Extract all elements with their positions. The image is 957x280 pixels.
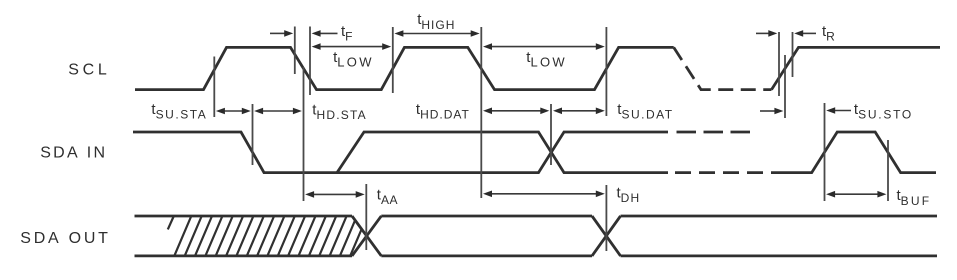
arrow tDH span xyxy=(491,193,597,195)
svg-text:tHD.DAT: tHD.DAT xyxy=(416,101,470,122)
tick SDA IN fall2 midpoint (tBUF right ref) xyxy=(887,140,889,201)
svg-text:SDA OUT: SDA OUT xyxy=(20,230,110,247)
arrow tF right pointer xyxy=(320,32,338,34)
arrow tHD.DAT span xyxy=(491,110,541,112)
arrow tF left pointer xyxy=(270,32,285,34)
arrow tBUF span xyxy=(834,193,878,195)
tick SDA IN crossover midpoint (tHD.DAT right ref) xyxy=(550,104,552,165)
tick SCL fall1 midpoint long (tHD.STA / tAA ref) xyxy=(303,67,305,201)
tick SCL rise2 midpoint (tHIGH left ref) xyxy=(392,27,394,93)
svg-text:tSU.DAT: tSU.DAT xyxy=(617,101,673,122)
wire SCL solid waveform xyxy=(135,47,674,89)
wire SDA IN right pulse (stop condition) xyxy=(771,132,936,173)
wire SDA OUT middle rails xyxy=(381,216,592,256)
svg-text:tSU.STA: tSU.STA xyxy=(151,101,207,122)
svg-text:tHD.STA: tHD.STA xyxy=(312,101,367,122)
arrow pointer to SCL rise4 midpoint xyxy=(760,110,775,112)
wire SDA OUT right rails xyxy=(621,216,938,256)
svg-text:tAA: tAA xyxy=(377,187,398,208)
arrow tSU.STO pointer xyxy=(834,110,851,112)
wire SDA OUT top rail left xyxy=(135,215,353,218)
wire SDA OUT bottom rail left xyxy=(135,254,353,257)
svg-text:tR: tR xyxy=(822,23,836,44)
tick SCL rise4 midpoint xyxy=(784,55,786,118)
tick SCL rise4 90% (tR right ref) xyxy=(792,32,794,77)
svg-text:tLOW: tLOW xyxy=(333,49,374,70)
tick SDA IN rise midpoint (tSU.STO / tBUF left ref) xyxy=(824,103,826,201)
arrow tR left pointer xyxy=(756,32,769,34)
tick SDA OUT X1 midpoint (tAA right ref) xyxy=(365,184,367,250)
wire SDA IN dashed high rail xyxy=(677,131,751,134)
arrow tHIGH span xyxy=(402,33,471,35)
wire SCL dashed falling edge and low segment xyxy=(674,47,772,89)
hatched region slashes (SDA OUT invalid data) xyxy=(174,216,377,256)
hatch start hook mark xyxy=(168,217,174,230)
wire SDA OUT crossover X2 xyxy=(592,216,621,256)
tick SCL rise4 10% (tR left ref) xyxy=(778,32,780,96)
wire SCL right rising edge and high segment xyxy=(772,47,941,89)
tick SCL fall2 midpoint long (tHD.DAT / tDH left ref) xyxy=(480,27,482,198)
arrow tLOW first span xyxy=(320,46,384,48)
svg-text:tLOW: tLOW xyxy=(526,49,567,70)
arrow tSU.STA span xyxy=(224,110,243,112)
arrow tR right pointer xyxy=(802,32,816,34)
wire SDA IN low route: fall edge, low rail, X rising leg, high rail xyxy=(133,132,668,173)
svg-text:tF: tF xyxy=(341,23,354,44)
svg-text:tSU.STO: tSU.STO xyxy=(854,101,913,122)
wire SDA OUT crossover X1 xyxy=(352,216,381,256)
svg-text:SDA IN: SDA IN xyxy=(40,145,107,162)
arrow tSU.DAT span xyxy=(561,110,597,112)
arrow tLOW second span xyxy=(491,46,597,48)
wire SDA IN high branch: rise edge, high rail, X falling leg, low rail xyxy=(337,132,668,173)
arrow tHD.STA span xyxy=(262,110,294,112)
svg-text:tDH: tDH xyxy=(617,185,641,206)
tick SDA OUT X2 midpoint (tDH right ref) xyxy=(605,185,607,251)
svg-text:tBUF: tBUF xyxy=(897,187,932,208)
tick SCL fall1 10% (tF right ref) xyxy=(309,27,311,96)
svg-text:tHIGH: tHIGH xyxy=(417,11,455,32)
tick SCL rise3 midpoint (tSU.DAT right ref) xyxy=(605,27,607,116)
tick SCL rise1 midpoint (tSU.STA left ref) xyxy=(213,57,215,118)
tick SDA IN fall1 midpoint (tSU.STA right ref) xyxy=(252,104,254,165)
svg-text:SCL: SCL xyxy=(68,61,110,78)
arrow tAA span xyxy=(313,193,357,195)
tick SCL fall1 90% (tF left ref) xyxy=(294,27,296,75)
wire SDA IN dashed low rail xyxy=(675,171,764,174)
